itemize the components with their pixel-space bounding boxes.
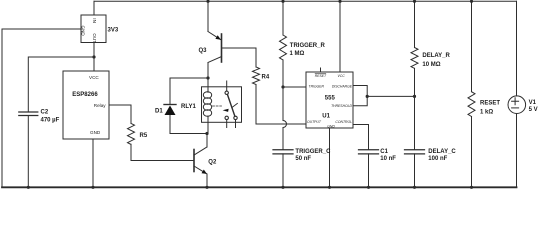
wire TRIGGER junction down to TRIGGER_C	[283, 87, 287, 150]
label GND (ESP pin)	[90, 130, 101, 135]
wire ESP8266 GND to ground rail	[92, 139, 94, 187]
node ESP GND junction	[91, 186, 94, 189]
wire TRIGGER_C to ground rail	[282, 154, 284, 187]
svg-text:TRIGGER_R: TRIGGER_R	[290, 43, 326, 49]
svg-text:GND: GND	[327, 125, 335, 129]
svg-text:1 kΩ: 1 kΩ	[480, 109, 493, 115]
svg-text:ESP8266: ESP8266	[72, 92, 98, 98]
label C2 value	[41, 110, 60, 124]
svg-text:555: 555	[325, 95, 336, 101]
svg-text:50 nF: 50 nF	[295, 156, 311, 162]
svg-text:THRESHOLD: THRESHOLD	[331, 104, 352, 108]
transistor Q3	[208, 32, 222, 63]
wire 555 GND to ground rail	[329, 128, 331, 187]
svg-text:OUTPUT: OUTPUT	[307, 120, 322, 124]
resistor DELAY_R	[411, 1, 418, 96]
wire C2 to ground rail	[27, 116, 29, 188]
regulator U2 3V3	[81, 15, 106, 43]
node TRIGGER junction	[281, 85, 284, 88]
voltage source V1	[508, 1, 526, 187]
wire Q3 base to R4	[222, 48, 257, 67]
node RESET ground junction	[470, 186, 473, 189]
node coil top junction	[206, 76, 209, 79]
resistor RESET 1k	[468, 1, 475, 187]
label Q3	[199, 48, 208, 54]
svg-text:OUT: OUT	[92, 33, 97, 43]
label R5	[140, 133, 148, 139]
wire top power rail	[94, 0, 517, 2]
wire DISCHARGE-THRESHOLD bracket	[353, 86, 367, 106]
wire D1 cathode up to coil top net	[170, 78, 208, 105]
label RESET value	[480, 100, 500, 115]
capacitor C2	[19, 112, 38, 116]
label Q2	[208, 160, 217, 166]
capacitor DELAY_C	[405, 150, 425, 154]
label Relay (ESP pin)	[94, 103, 106, 108]
resistor R4	[253, 67, 260, 85]
wire ESP Relay pin to R5	[109, 105, 131, 123]
node DELAY junction	[413, 95, 416, 98]
wire 555 VCC to top rail	[339, 1, 341, 72]
label DELAY_C value	[428, 149, 456, 162]
wire OUT junction to C2 branch	[28, 57, 94, 112]
svg-text:GND: GND	[90, 130, 101, 135]
wire D1 anode / coil bottom / Q2 collector net	[170, 133, 207, 135]
label RLY1	[181, 104, 196, 110]
label 3V3	[108, 28, 119, 34]
svg-text:R4: R4	[262, 75, 270, 81]
label V1 value	[529, 100, 538, 113]
wire Q2 collector up	[206, 134, 208, 148]
label 555	[325, 95, 336, 101]
svg-text:3V3: 3V3	[108, 28, 119, 34]
resistor R5	[128, 123, 135, 144]
svg-text:CONTROL: CONTROL	[335, 120, 352, 124]
svg-text:DELAY_R: DELAY_R	[422, 53, 450, 59]
svg-text:Relay: Relay	[94, 103, 106, 108]
node RESET rail junction	[470, 0, 473, 3]
wire Q3 collector down to relay coil	[207, 63, 209, 87]
ESP8266 module U3	[63, 71, 109, 139]
wire bracket to DELAY_R/DELAY_C node	[367, 95, 414, 97]
svg-text:R5: R5	[140, 133, 148, 139]
svg-text:Q3: Q3	[199, 48, 208, 54]
wire R5 to Q2 base	[131, 144, 194, 160]
svg-text:C2: C2	[41, 110, 49, 116]
node Q3 emitter rail junction	[206, 0, 209, 3]
node DELAY_R rail junction	[413, 0, 416, 3]
label OUT (regulator pin, rotated)	[92, 33, 97, 43]
relay RLY1	[202, 81, 242, 134]
svg-text:TRIGGER: TRIGGER	[309, 85, 325, 89]
svg-text:10 nF: 10 nF	[380, 156, 396, 162]
pin RESET stub	[320, 68, 322, 72]
label D1	[155, 109, 163, 115]
label R4	[262, 75, 270, 81]
svg-text:GND: GND	[81, 26, 86, 37]
svg-text:100 nF: 100 nF	[428, 156, 447, 162]
wire regulator OUT down to ESP8266 VCC	[93, 43, 95, 72]
label ESP8266	[72, 92, 98, 98]
wire regulator IN to top rail	[93, 1, 95, 15]
node 555 GND ground junction	[328, 186, 331, 189]
label TRIGGER_R value	[290, 43, 326, 57]
timer 555 pin labels	[307, 73, 353, 128]
node VCC rail junction	[338, 0, 341, 3]
node DELAY_C ground junction	[413, 186, 416, 189]
svg-text:DELAY_C: DELAY_C	[428, 149, 456, 155]
label DELAY_R value	[422, 53, 450, 68]
wire DELAY node down to DELAY_C	[414, 96, 416, 149]
svg-text:1 MΩ: 1 MΩ	[290, 51, 305, 57]
label C1 value	[380, 149, 396, 162]
svg-text:RESET: RESET	[315, 74, 327, 78]
svg-text:VCC: VCC	[338, 74, 346, 78]
capacitor C1	[359, 150, 379, 154]
node coil-D1-Q2 junction	[205, 132, 208, 135]
wire 555 CONTROL to C1	[353, 125, 369, 150]
svg-text:Q2: Q2	[208, 160, 217, 166]
node TRIGGER_C ground junction	[281, 186, 284, 189]
capacitor TRIGGER_C	[273, 150, 293, 154]
wire D1 anode vertical	[169, 115, 171, 134]
svg-text:RLY1: RLY1	[181, 104, 196, 110]
transistor Q2	[194, 147, 207, 174]
svg-text:10 MΩ: 10 MΩ	[422, 62, 440, 68]
svg-text:V1: V1	[529, 100, 537, 106]
svg-text:5 V: 5 V	[529, 107, 538, 113]
svg-text:D1: D1	[155, 109, 163, 115]
wire Q2 emitter to ground rail	[206, 174, 208, 187]
svg-text:VCC: VCC	[89, 75, 99, 80]
wire C1 to ground rail	[368, 154, 370, 187]
wire Q3 emitter to top rail	[207, 1, 209, 31]
svg-text:IN: IN	[92, 18, 97, 23]
node OUT junction	[92, 55, 95, 58]
svg-text:470 µF: 470 µF	[41, 118, 60, 124]
wire bottom ground rail	[2, 186, 517, 188]
diode D1	[164, 105, 176, 116]
svg-text:TRIGGER_C: TRIGGER_C	[295, 149, 331, 155]
label TRIGGER_C value	[295, 149, 331, 162]
label IN (regulator pin, rotated)	[92, 18, 97, 23]
label VCC (ESP pin)	[89, 75, 99, 80]
node TRIGGER_R rail junction	[281, 0, 284, 3]
node Q2 emitter ground junction	[205, 186, 208, 189]
label U1	[322, 114, 330, 120]
svg-text:DISCHARGE: DISCHARGE	[332, 85, 353, 89]
resistor TRIGGER_R	[280, 1, 287, 87]
node bracket junction	[366, 95, 369, 98]
wire TRIGGER junction to 555 TRIGGER pin	[283, 86, 306, 88]
node C1 ground junction	[367, 186, 370, 189]
wire DELAY_C to ground rail	[414, 154, 416, 187]
label GND (regulator pin, rotated)	[81, 26, 86, 37]
svg-text:U1: U1	[322, 114, 330, 120]
timer 555 U1	[306, 72, 353, 128]
node C2 ground junction	[27, 186, 30, 189]
wire regulator GND to left rail	[2, 29, 81, 187]
svg-text:C1: C1	[380, 149, 388, 155]
wire R4 to 555 OUTPUT with hop over trigger line	[256, 85, 306, 125]
svg-text:RESET: RESET	[480, 100, 500, 106]
